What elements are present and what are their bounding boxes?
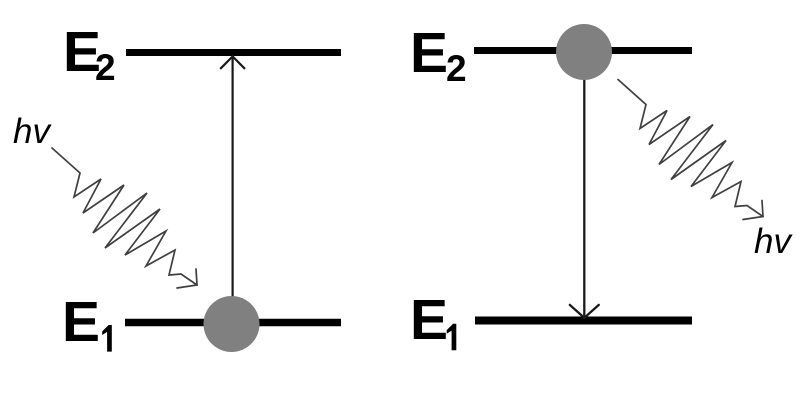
svg-text:2: 2 xyxy=(95,47,116,88)
energy level line E1 (left) xyxy=(125,319,341,327)
energy level line E1 (right) xyxy=(475,317,692,325)
electron circle on E1 (left) xyxy=(204,296,260,352)
electron circle on E2 (right) xyxy=(556,24,612,80)
transition arrow down (right) xyxy=(570,52,599,318)
incoming photon zigzag arrow (left) xyxy=(52,148,197,288)
svg-text:E: E xyxy=(410,288,448,352)
svg-text:E: E xyxy=(62,290,100,354)
svg-text:hv: hv xyxy=(754,222,793,261)
emitted photon zigzag arrow (right) xyxy=(618,80,763,220)
svg-text:2: 2 xyxy=(446,48,467,89)
svg-text:E: E xyxy=(410,21,448,85)
svg-text:hv: hv xyxy=(13,112,52,151)
transition arrow up (left) xyxy=(221,56,245,324)
label E1 (right) xyxy=(410,288,456,352)
energy level line E2 (left) xyxy=(126,49,341,56)
label E2 (left) xyxy=(63,20,116,88)
energy level line E2 (right) xyxy=(474,47,692,54)
label E1 (left) xyxy=(62,290,112,354)
label E2 (right) xyxy=(410,21,467,89)
